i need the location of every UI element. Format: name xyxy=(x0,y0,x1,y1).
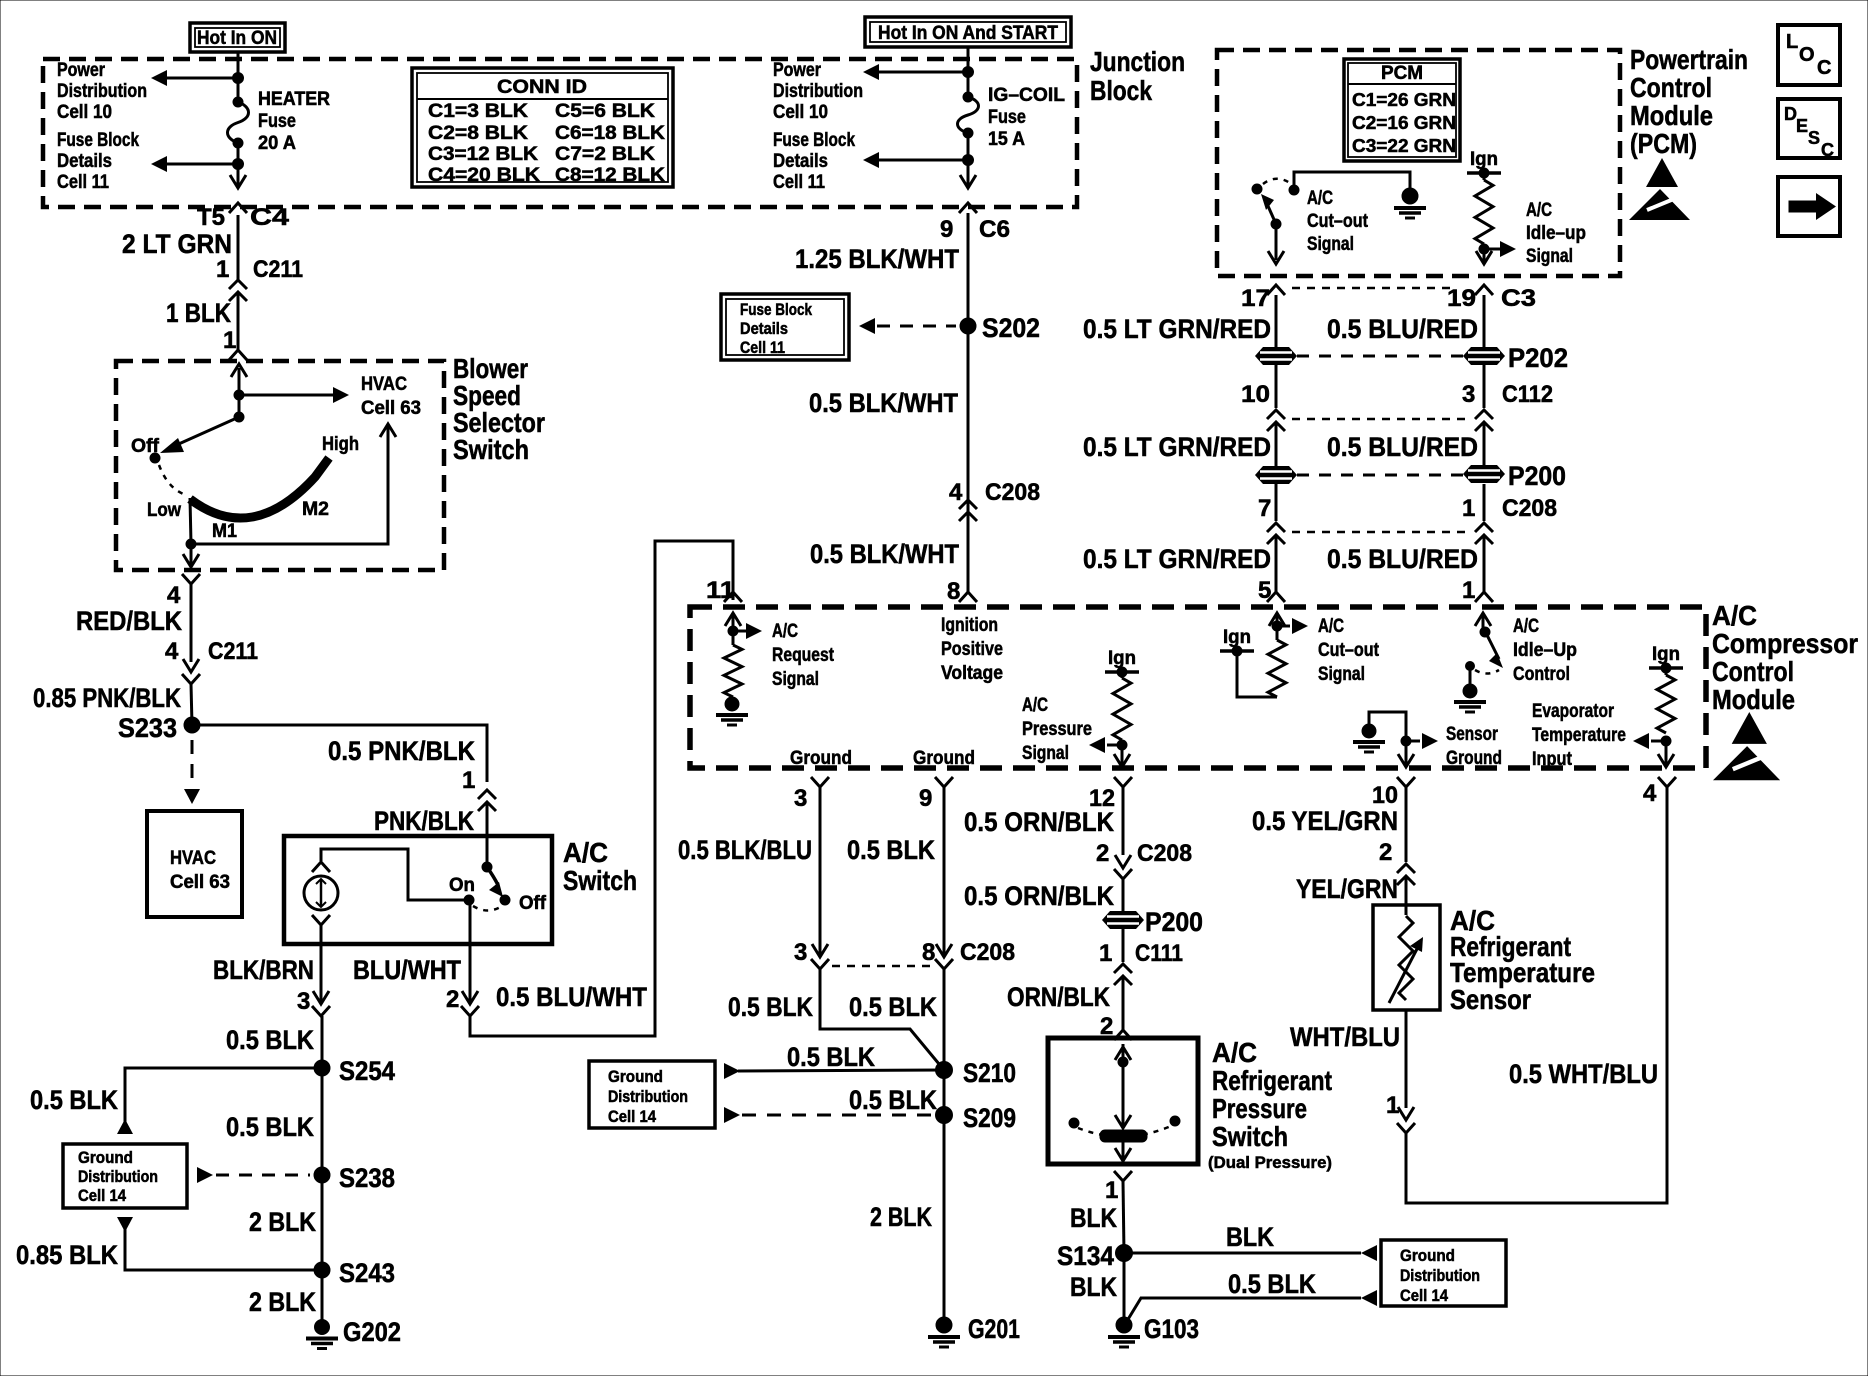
connector C208 right xyxy=(1475,523,1493,544)
pressure switch dashed contact arc xyxy=(1078,1126,1171,1137)
svg-text:0.5 BLK/WHT: 0.5 BLK/WHT xyxy=(809,388,958,418)
svg-text:9: 9 xyxy=(940,216,953,243)
svg-text:1: 1 xyxy=(1462,495,1475,522)
wire 0.5 PNK/BLK to A/C switch xyxy=(192,725,487,782)
svg-text:0.5 BLK: 0.5 BLK xyxy=(226,1025,314,1055)
pin 5 at module xyxy=(1258,577,1271,604)
wire pressure signal to pin 12 xyxy=(1114,745,1130,767)
wire 0.5 BLU/WHT up to A/C request pin 11 xyxy=(470,541,733,1036)
wire to C208 right xyxy=(1483,484,1486,521)
svg-text:Ground: Ground xyxy=(1400,1246,1455,1265)
svg-text:BLK: BLK xyxy=(1070,1203,1117,1233)
label A/C Refrigerant Temperature Sensor xyxy=(1450,905,1595,1015)
wire idle-up to pin 19 xyxy=(1476,249,1492,264)
resistor A/C request xyxy=(724,645,742,697)
label S134 xyxy=(1057,1241,1114,1271)
connector sensor pin 2 xyxy=(1397,864,1415,885)
connector C208 (ignition voltage) xyxy=(959,479,1040,521)
connector at A/C switch pin 1 xyxy=(478,790,496,811)
svg-text:0.5 BLK: 0.5 BLK xyxy=(226,1112,314,1142)
svg-text:Cut–out: Cut–out xyxy=(1318,640,1380,661)
label Power Distribution Cell 10 (junction block) xyxy=(773,60,863,123)
svg-text:S254: S254 xyxy=(339,1056,395,1086)
splice S202 xyxy=(960,318,976,334)
label S202 xyxy=(982,313,1040,343)
svg-text:Ignition: Ignition xyxy=(941,615,998,636)
wire cut-out contact to ground xyxy=(1294,172,1410,190)
wire BLK to G103 xyxy=(1123,1253,1126,1325)
connector C208 pin 8 xyxy=(935,944,953,969)
svg-text:A/C: A/C xyxy=(563,837,608,868)
svg-text:1: 1 xyxy=(216,256,229,283)
wire to C112 left xyxy=(1275,365,1278,408)
svg-text:Power: Power xyxy=(57,60,105,81)
svg-text:(PCM): (PCM) xyxy=(1630,128,1697,159)
svg-text:S134: S134 xyxy=(1057,1241,1114,1271)
svg-text:Sensor: Sensor xyxy=(1446,724,1498,745)
pin 1 at sensor bottom xyxy=(1386,1092,1399,1119)
svg-text:P202: P202 xyxy=(1508,343,1568,373)
svg-text:O: O xyxy=(1799,44,1815,66)
svg-text:Sensor: Sensor xyxy=(1450,984,1531,1015)
wire 0.85 BLK branch to ground distribution xyxy=(117,1217,322,1270)
label 2 LT GRN xyxy=(122,229,232,259)
ground in PCM xyxy=(1394,188,1426,218)
Ign feed in PCM xyxy=(1467,149,1501,178)
svg-text:0.5 BLU/RED: 0.5 BLU/RED xyxy=(1327,544,1478,574)
svg-text:0.5 ORN/BLK: 0.5 ORN/BLK xyxy=(964,807,1114,837)
svg-text:0.5 LT GRN/RED: 0.5 LT GRN/RED xyxy=(1083,544,1271,574)
pressure switch movable contact bar xyxy=(1100,1130,1147,1142)
svg-text:Signal: Signal xyxy=(772,669,819,690)
label 0.5 ORN/BLK upper xyxy=(964,807,1114,837)
svg-text:BLK: BLK xyxy=(1226,1222,1274,1252)
svg-text:Details: Details xyxy=(740,319,788,338)
pin 1 at C211 xyxy=(216,256,229,283)
wire 0.5 BLK branch to ground distribution xyxy=(117,1068,322,1134)
svg-text:Cut–out: Cut–out xyxy=(1307,211,1369,232)
svg-text:Cell 11: Cell 11 xyxy=(773,172,825,193)
svg-text:0.5 BLK: 0.5 BLK xyxy=(849,1085,937,1115)
blower speed selector switch dashed box xyxy=(116,361,444,570)
label 0.5 BLK (S254-S238) xyxy=(226,1112,314,1142)
svg-text:0.5 WHT/BLU: 0.5 WHT/BLU xyxy=(1509,1059,1658,1089)
label 0.5 BLK (pin3) xyxy=(728,992,813,1022)
pin 11 at module xyxy=(706,577,735,604)
svg-text:3: 3 xyxy=(297,988,310,1015)
connector female pressure switch pin 2 xyxy=(1114,1030,1132,1040)
pin 9 (ground) xyxy=(919,785,932,812)
svg-text:0.5 LT GRN/RED: 0.5 LT GRN/RED xyxy=(1083,314,1271,344)
svg-text:Cell 63: Cell 63 xyxy=(170,872,230,893)
svg-text:S238: S238 xyxy=(339,1163,395,1193)
svg-text:Fuse Block: Fuse Block xyxy=(740,300,812,319)
svg-text:M1: M1 xyxy=(212,521,237,542)
ESD symbol module xyxy=(1713,712,1780,780)
svg-text:4: 4 xyxy=(1643,780,1657,807)
svg-text:A/C: A/C xyxy=(1022,695,1048,716)
label BLK (horizontal) xyxy=(1226,1222,1274,1252)
node junction dot above heater fuse xyxy=(233,73,244,84)
svg-text:PNK/BLK: PNK/BLK xyxy=(374,806,474,836)
connector female pin 8 xyxy=(959,592,977,602)
svg-text:Off: Off xyxy=(131,436,160,457)
wire 2 BLK to G202 xyxy=(321,1270,324,1325)
pin 2 at sensor connector xyxy=(1379,839,1392,866)
label 0.5 LT GRN/RED seg3 xyxy=(1083,544,1271,574)
label A/C Cut-out Signal (module) xyxy=(1318,616,1380,685)
svg-text:2 LT GRN: 2 LT GRN xyxy=(122,229,232,259)
svg-text:0.5 BLU/RED: 0.5 BLU/RED xyxy=(1327,432,1478,462)
label BLK (lower) xyxy=(1070,1272,1117,1302)
svg-text:Ign: Ign xyxy=(1223,627,1251,648)
svg-text:C5=6 BLK: C5=6 BLK xyxy=(555,101,655,122)
svg-text:Signal: Signal xyxy=(1318,664,1365,685)
svg-text:C: C xyxy=(1821,140,1834,160)
resistor A/C cut-out xyxy=(1268,640,1286,697)
box Ground Distribution Cell 14 (right) xyxy=(1381,1240,1506,1306)
svg-text:Switch: Switch xyxy=(1212,1121,1288,1152)
svg-text:Compressor: Compressor xyxy=(1712,628,1858,659)
svg-text:0.5 BLK: 0.5 BLK xyxy=(787,1042,875,1072)
label 0.5 BLK (S209 branch) xyxy=(849,1085,937,1115)
svg-text:Signal: Signal xyxy=(1307,234,1354,255)
label 0.5 BLK/WHT upper xyxy=(809,388,958,418)
svg-text:Hot In ON: Hot In ON xyxy=(197,28,277,49)
splice S243 xyxy=(314,1262,330,1278)
label 0.5 PNK/BLK xyxy=(328,736,475,766)
node wiper pivot dot xyxy=(234,412,244,422)
pin 3 below A/C switch xyxy=(297,988,310,1015)
A/C refrigerant temperature sensor box xyxy=(1373,905,1440,1010)
svg-text:Cell 63: Cell 63 xyxy=(361,398,421,419)
connector female pin 4 xyxy=(1658,777,1676,787)
svg-text:ORN/BLK: ORN/BLK xyxy=(1007,982,1110,1012)
net label Hot In ON And START xyxy=(865,17,1071,47)
pin 10 xyxy=(1372,782,1398,809)
svg-text:Cell 14: Cell 14 xyxy=(608,1107,656,1126)
pin 17 xyxy=(1241,285,1270,312)
wire 0.5 LT GRN/RED seg2 xyxy=(1275,422,1278,466)
svg-text:S209: S209 xyxy=(963,1103,1016,1133)
label 0.5 BLK (S210 branch) xyxy=(787,1042,875,1072)
svg-text:C6: C6 xyxy=(979,216,1010,243)
wire 0.5 BLK/BLU xyxy=(819,787,822,955)
svg-text:10: 10 xyxy=(1372,782,1398,809)
wire into IG-COIL fuse xyxy=(967,47,970,97)
wire below heater fuse xyxy=(237,143,240,186)
svg-text:Switch: Switch xyxy=(453,434,529,465)
svg-text:Cell 10: Cell 10 xyxy=(773,102,828,123)
svg-text:Hot In ON And START: Hot In ON And START xyxy=(878,23,1058,44)
label 0.85 BLK xyxy=(16,1240,118,1270)
label 0.5 BLK (pin9 upper) xyxy=(847,835,935,865)
label Low xyxy=(147,500,181,521)
svg-text:Distribution: Distribution xyxy=(78,1167,158,1186)
svg-text:0.5 BLK: 0.5 BLK xyxy=(849,992,937,1022)
contact On dot xyxy=(464,895,474,905)
label 0.5 BLU/RED seg2 xyxy=(1327,432,1478,462)
svg-text:Idle–Up: Idle–Up xyxy=(1513,640,1577,661)
pin 10 at C112 xyxy=(1241,381,1270,408)
svg-text:WHT/BLU: WHT/BLU xyxy=(1290,1022,1400,1052)
label A/C Refrigerant Pressure Switch (Dual Pressure) xyxy=(1208,1037,1332,1172)
svg-text:BLK/BRN: BLK/BRN xyxy=(213,955,314,985)
svg-text:2 BLK: 2 BLK xyxy=(249,1207,316,1237)
node feed dot xyxy=(234,390,244,400)
label Ground pin 9 xyxy=(913,748,975,769)
junction block dashed box xyxy=(43,59,1077,207)
svg-text:A/C: A/C xyxy=(772,621,798,642)
connector name C112 xyxy=(1502,381,1553,408)
svg-text:Refrigerant: Refrigerant xyxy=(1212,1065,1332,1096)
fuse IG-COIL 15 A xyxy=(958,92,979,138)
label P202 xyxy=(1508,343,1568,373)
svg-text:2: 2 xyxy=(446,986,459,1013)
svg-text:0.85 BLK: 0.85 BLK xyxy=(16,1240,118,1270)
DESC reference box xyxy=(1778,99,1840,160)
PCM dashed box xyxy=(1217,50,1620,276)
connector female at blower switch xyxy=(229,350,247,360)
svg-text:2 BLK: 2 BLK xyxy=(870,1202,932,1232)
label 0.5 BLK (branch) xyxy=(30,1085,118,1115)
svg-text:Ground: Ground xyxy=(790,748,852,769)
svg-text:Cell 11: Cell 11 xyxy=(740,338,785,357)
svg-text:C111: C111 xyxy=(1135,940,1183,967)
connector name C208 (right column) xyxy=(1502,495,1557,522)
dashed connector line C112 xyxy=(1292,418,1467,421)
svg-text:BLK: BLK xyxy=(1070,1272,1117,1302)
svg-text:7: 7 xyxy=(1258,495,1271,522)
splice P200 right xyxy=(1463,465,1505,483)
label 0.5 YEL/GRN xyxy=(1252,806,1398,836)
splice P202 left xyxy=(1255,347,1297,365)
label BLK/BRN xyxy=(213,955,314,985)
wire On contact to lamp xyxy=(321,849,469,900)
wire from Hot In ON into fuse xyxy=(237,52,240,102)
label S210 xyxy=(963,1058,1016,1088)
pin 1 below pressure switch xyxy=(1105,1177,1118,1204)
wire 0.5 BLK pin 9 xyxy=(943,787,946,955)
label 0.5 BLK/BLU xyxy=(678,835,812,865)
wire direction arrow at C4 xyxy=(230,175,246,188)
label Ignition Positive Voltage xyxy=(941,615,1003,684)
label G201 xyxy=(968,1314,1020,1344)
svg-text:0.5 BLK/WHT: 0.5 BLK/WHT xyxy=(810,539,959,569)
svg-text:3: 3 xyxy=(794,785,807,812)
wire 0.5 BLK to ground distribution (S210) xyxy=(724,1063,944,1079)
label 0.5 BLU/RED seg3 xyxy=(1327,544,1478,574)
label S209 xyxy=(963,1103,1016,1133)
svg-text:Switch: Switch xyxy=(563,865,637,896)
wire direction arrow at C6 xyxy=(960,175,976,188)
wire PNK/BLK into switch xyxy=(486,802,489,867)
svg-text:Positive: Positive xyxy=(941,639,1003,660)
svg-text:0.5 LT GRN/RED: 0.5 LT GRN/RED xyxy=(1083,432,1271,462)
svg-text:A/C: A/C xyxy=(1307,188,1333,209)
pin 4 below blower switch xyxy=(167,582,181,609)
LOC reference box xyxy=(1778,25,1840,85)
wire to HVAC Cell 63 arrow (high output) xyxy=(191,424,396,544)
connector C211 xyxy=(229,256,303,301)
svg-text:0.5 BLU/RED: 0.5 BLU/RED xyxy=(1327,314,1478,344)
label HVAC Cell 63 (blower) xyxy=(361,374,421,419)
label Off xyxy=(519,893,547,914)
A/C request signal input pin 11 xyxy=(725,613,762,645)
wire 0.5 BLU/RED seg3 xyxy=(1483,535,1486,592)
svg-text:0.5 BLK: 0.5 BLK xyxy=(1228,1269,1316,1299)
wire 0.5 BLK to S254 xyxy=(321,1016,324,1068)
connector name C208 bottom xyxy=(960,939,1015,966)
resistor evaporator temperature xyxy=(1657,668,1675,733)
svg-text:9: 9 xyxy=(919,785,932,812)
svg-text:Distribution: Distribution xyxy=(57,81,147,102)
svg-text:C4: C4 xyxy=(250,204,290,231)
label HEATER Fuse 20 A xyxy=(258,89,330,154)
svg-text:Details: Details xyxy=(57,151,112,172)
svg-text:T5: T5 xyxy=(197,204,225,231)
svg-text:1: 1 xyxy=(1105,1177,1118,1204)
svg-text:Off: Off xyxy=(519,893,547,914)
reference arrow to Fuse Block Details Cell 11 (junction block) xyxy=(863,152,968,168)
wire 0.5 BLU/RED seg1 xyxy=(1483,295,1486,347)
wire 0.5 BLK pin9 to S210 xyxy=(943,969,946,1070)
node dot on low output xyxy=(186,539,196,549)
svg-text:3: 3 xyxy=(1462,381,1475,408)
label High xyxy=(322,434,359,455)
connector name C3 xyxy=(1501,285,1536,312)
indicator lamp xyxy=(304,862,338,925)
svg-text:Temperature: Temperature xyxy=(1532,725,1626,746)
dashed travel arc idle-up xyxy=(1475,670,1499,674)
svg-text:0.5 BLK: 0.5 BLK xyxy=(30,1085,118,1115)
A/C cut-out switch in PCM xyxy=(1252,179,1299,229)
svg-text:C211: C211 xyxy=(253,256,303,283)
svg-text:C112: C112 xyxy=(1502,381,1553,408)
label Fuse Block Details Cell 11 (junction block) xyxy=(773,130,855,193)
pin 3 at C208 bottom xyxy=(794,939,807,966)
svg-text:Junction: Junction xyxy=(1090,46,1185,77)
wire 2 BLK to G201 xyxy=(943,1070,946,1325)
wire to C112 right xyxy=(1483,365,1486,408)
wire 0.5 YEL/GRN xyxy=(1405,787,1408,862)
svg-text:IG–COIL: IG–COIL xyxy=(988,85,1065,106)
dashed connector line C208 xyxy=(1292,531,1467,534)
label Powertrain Control Module (PCM) xyxy=(1630,44,1748,159)
svg-text:Cell 11: Cell 11 xyxy=(57,172,109,193)
wire 0.5 WHT/BLU to pin 4 xyxy=(1406,787,1667,1203)
pin T5 xyxy=(197,204,225,231)
svg-text:1: 1 xyxy=(462,767,475,794)
splice P200 (pressure) xyxy=(1102,911,1144,929)
pin 1 at module (idle-up) xyxy=(1462,577,1475,604)
svg-text:S: S xyxy=(1808,128,1820,148)
svg-text:E: E xyxy=(1796,116,1808,136)
svg-text:On: On xyxy=(449,875,475,896)
wire 1.25 BLK/WHT xyxy=(967,213,970,592)
Ign feed cut-out xyxy=(1220,627,1254,656)
wire 0.5 ORN/BLK lower xyxy=(1122,879,1125,911)
svg-text:Evaporator: Evaporator xyxy=(1532,701,1614,722)
svg-text:1.25 BLK/WHT: 1.25 BLK/WHT xyxy=(795,244,959,274)
switch lever with arrow xyxy=(487,867,503,897)
svg-text:Pressure: Pressure xyxy=(1212,1093,1307,1124)
svg-text:2 BLK: 2 BLK xyxy=(249,1287,316,1317)
svg-text:Fuse Block: Fuse Block xyxy=(773,130,855,151)
svg-text:0.5 BLK: 0.5 BLK xyxy=(847,835,935,865)
svg-text:C3=12 BLK: C3=12 BLK xyxy=(428,144,538,165)
wire On contact to pin 2 xyxy=(469,900,472,1002)
connector below pin 3 xyxy=(312,991,330,1016)
svg-text:C4=20 BLK: C4=20 BLK xyxy=(428,165,540,186)
svg-text:19: 19 xyxy=(1447,285,1476,312)
reference arrow to Fuse Block Details Cell 11 xyxy=(151,156,238,172)
connector C112 right xyxy=(1475,410,1493,431)
label A/C Switch xyxy=(563,837,637,896)
pin 2 at pressure switch xyxy=(1100,1013,1113,1040)
label Evaporator Temperature Input xyxy=(1532,701,1626,770)
net label Hot In ON xyxy=(190,23,285,52)
ground idle-up xyxy=(1454,684,1486,712)
label S233 xyxy=(118,713,177,743)
node pressure signal junction xyxy=(1089,737,1127,753)
label 0.5 BLU/RED seg1 xyxy=(1327,314,1478,344)
wire BLK to ground distribution right xyxy=(1124,1245,1377,1261)
svg-text:Ign: Ign xyxy=(1652,644,1680,665)
connector C208 pin 3 xyxy=(811,944,829,969)
svg-text:Distribution: Distribution xyxy=(608,1087,688,1106)
connector C211 lower xyxy=(182,638,258,684)
label G103 xyxy=(1144,1314,1199,1344)
svg-text:15 A: 15 A xyxy=(988,129,1025,150)
sensor ground symbol xyxy=(1353,724,1385,752)
connector C3 female pin 17 xyxy=(1267,285,1285,295)
svg-text:C7=2 BLK: C7=2 BLK xyxy=(555,144,655,165)
svg-text:C208: C208 xyxy=(985,479,1040,506)
svg-text:C3: C3 xyxy=(1501,285,1536,312)
pin 9 at C6 xyxy=(940,216,953,243)
A/C idle-up control switch pin 1 xyxy=(1475,613,1503,668)
svg-text:Details: Details xyxy=(773,151,828,172)
svg-text:Ground: Ground xyxy=(1446,748,1502,769)
svg-text:A/C: A/C xyxy=(1712,600,1757,631)
node idle-up junction xyxy=(1479,244,1489,254)
label 1 BLK xyxy=(166,298,231,328)
pin 8 at C208 bottom xyxy=(922,939,935,966)
box Ground Distribution Cell 14 (left) xyxy=(63,1144,187,1208)
svg-text:HVAC: HVAC xyxy=(170,848,216,869)
arrow idle-up signal xyxy=(1484,241,1516,257)
A/C refrigerant pressure switch box xyxy=(1048,1038,1198,1164)
svg-text:2: 2 xyxy=(1096,840,1109,867)
label IG-COIL Fuse 15 A xyxy=(988,85,1065,150)
label A/C Idle-up Signal (PCM) xyxy=(1526,200,1586,267)
splice P202 right xyxy=(1463,347,1505,365)
thermistor symbol xyxy=(1389,916,1423,1003)
svg-text:Module: Module xyxy=(1712,684,1795,715)
pressure switch contact right dot xyxy=(1170,1116,1180,1126)
pin 7 at C208 xyxy=(1258,495,1271,522)
label 0.5 BLU/WHT xyxy=(496,982,647,1012)
pin 1 at C208 xyxy=(1462,495,1475,522)
svg-text:High: High xyxy=(322,434,359,455)
label YEL/GRN xyxy=(1296,874,1398,904)
pin 8 at module xyxy=(947,578,960,605)
label BLK (upper) xyxy=(1070,1203,1117,1233)
label 0.5 BLK xyxy=(226,1025,314,1055)
label A/C Request Signal xyxy=(772,621,835,690)
dashed connector line C3 xyxy=(1292,287,1455,290)
